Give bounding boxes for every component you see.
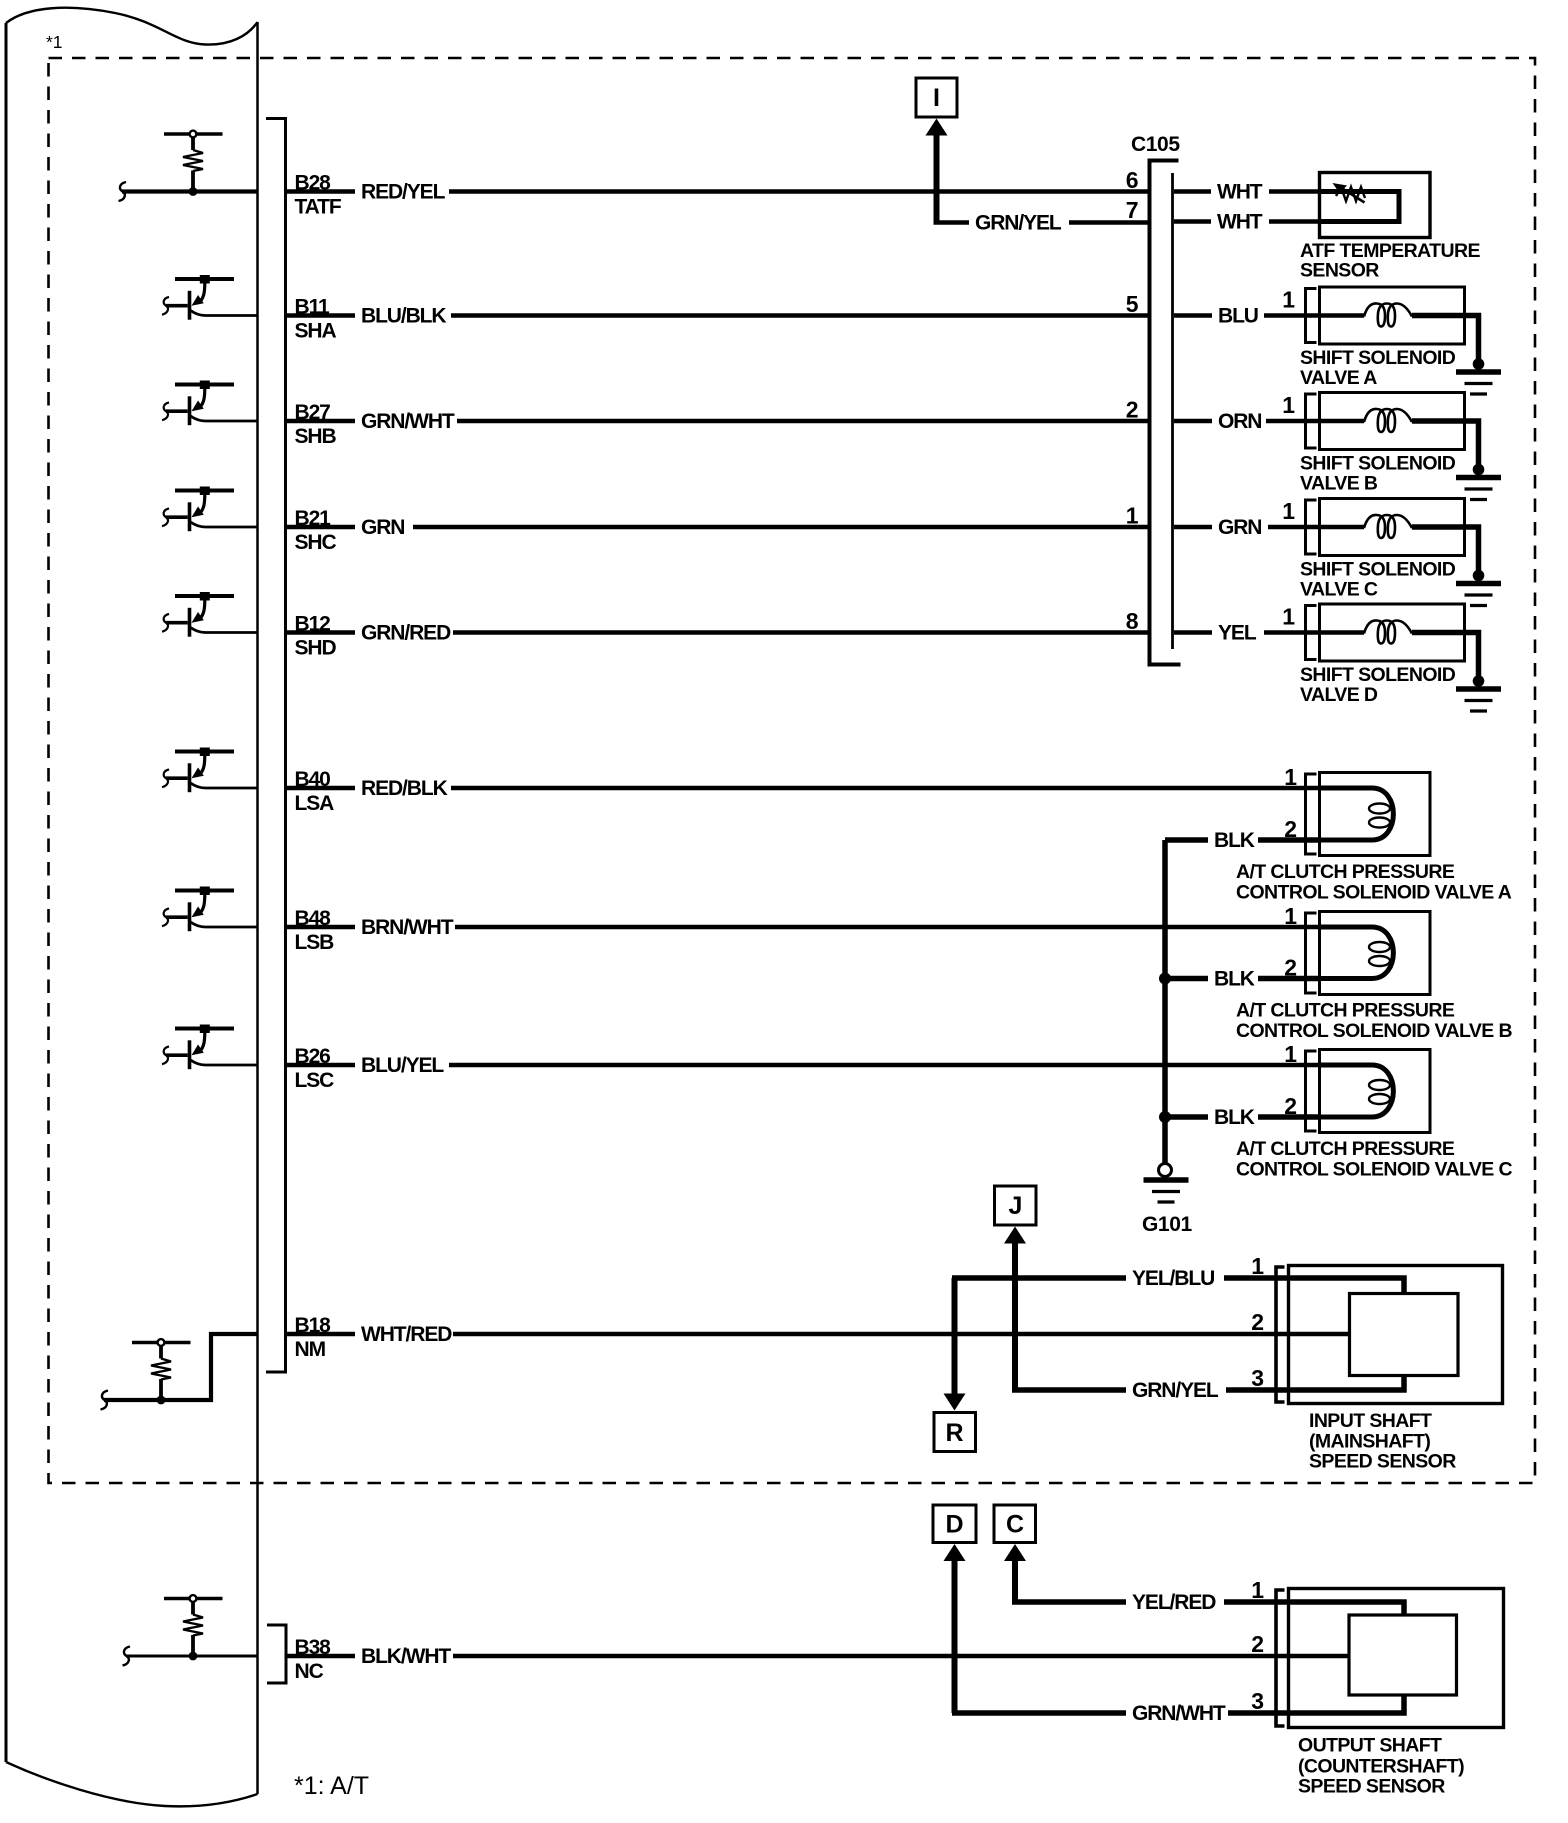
svg-text:R: R — [946, 1419, 964, 1447]
connector box C — [994, 1505, 1036, 1543]
svg-text:SHB: SHB — [295, 425, 337, 448]
wire WHT (pin7 device side) — [1174, 209, 1320, 234]
svg-text:CONTROL SOLENOID VALVE B: CONTROL SOLENOID VALVE B — [1236, 1020, 1512, 1042]
wire GRN/YEL vertical to J — [1012, 1240, 1018, 1390]
wire GRN (pin1 device side) — [1174, 515, 1364, 540]
connector box D — [933, 1505, 976, 1543]
svg-text:*1: *1 — [46, 32, 63, 52]
dashed A/T boundary box — [49, 58, 1536, 1483]
ground (valve B) — [1456, 478, 1501, 500]
svg-text:CONTROL SOLENOID VALVE C: CONTROL SOLENOID VALVE C — [1236, 1159, 1512, 1181]
svg-text:BLU/YEL: BLU/YEL — [361, 1054, 444, 1077]
transistor Q2 (B27 row) — [162, 381, 259, 426]
svg-text:SHIFT SOLENOID: SHIFT SOLENOID — [1300, 559, 1456, 581]
ground dot (valve A) — [1473, 358, 1485, 370]
svg-text:1: 1 — [1251, 1577, 1264, 1603]
junction dot (bus at clutch C) — [1159, 1111, 1171, 1123]
svg-text:SHIFT SOLENOID: SHIFT SOLENOID — [1300, 453, 1456, 475]
ground dot (valve D) — [1473, 675, 1485, 687]
wire GRN/YEL horizontal to C105 pin7 — [934, 210, 1148, 235]
svg-text:A/T CLUTCH PRESSURE: A/T CLUTCH PRESSURE — [1236, 861, 1455, 883]
svg-text:GRN: GRN — [1218, 516, 1261, 539]
wire B11 BLU/BLK to C105 pin5 — [286, 303, 1148, 328]
wire YEL (pin8 device side) — [1174, 620, 1364, 645]
label OUTPUT SHAFT (COUNTERSHAFT) SPEED SENSOR — [1298, 1735, 1464, 1798]
output sensor outer box — [1289, 1589, 1504, 1728]
svg-text:BLU: BLU — [1218, 305, 1258, 328]
svg-text:GRN/WHT: GRN/WHT — [1132, 1702, 1226, 1725]
svg-text:SHC: SHC — [295, 531, 337, 554]
arrow to D — [944, 1544, 966, 1561]
ATF sensor internal loop wire — [1320, 192, 1399, 222]
pin B21 / SHC — [295, 507, 337, 554]
svg-text:YEL/RED: YEL/RED — [1132, 1591, 1216, 1614]
connector bracket (input sensor) — [1276, 1267, 1285, 1402]
wire GRN/YEL vertical to I — [934, 132, 940, 223]
svg-text:3: 3 — [1251, 1365, 1264, 1391]
svg-text:(COUNTERSHAFT): (COUNTERSHAFT) — [1298, 1756, 1464, 1778]
label A/T CLUTCH PRESSURE CONTROL SOLENOID VALVE C — [1236, 1138, 1512, 1181]
svg-text:I: I — [933, 84, 940, 112]
connector bracket (clutch A) — [1306, 774, 1317, 854]
svg-text:TATF: TATF — [295, 196, 342, 219]
pin B26 / LSC — [295, 1045, 335, 1092]
svg-text:BLK: BLK — [1214, 829, 1255, 852]
svg-text:7: 7 — [1126, 197, 1139, 223]
svg-text:1: 1 — [1284, 1041, 1297, 1067]
wire B27 GRN/WHT to C105 pin2 — [286, 409, 1148, 434]
wire GRN/WHT vertical to D — [952, 1558, 958, 1714]
svg-text:YEL/BLU: YEL/BLU — [1132, 1267, 1214, 1290]
connector box J — [995, 1186, 1037, 1225]
svg-text:8: 8 — [1126, 608, 1139, 634]
squiggle (B38 internal line end) — [123, 1647, 131, 1666]
svg-text:GRN/WHT: GRN/WHT — [361, 410, 455, 433]
svg-text:CONTROL SOLENOID VALVE A: CONTROL SOLENOID VALVE A — [1236, 882, 1512, 904]
connector bracket (output sensor) — [1276, 1590, 1285, 1726]
svg-text:GRN/YEL: GRN/YEL — [1132, 1379, 1219, 1402]
svg-text:C105: C105 — [1131, 133, 1180, 156]
svg-text:1: 1 — [1282, 287, 1295, 313]
svg-text:WHT/RED: WHT/RED — [361, 1323, 452, 1346]
pull-up resistor circuit (B28 row) — [164, 131, 223, 196]
svg-text:1: 1 — [1284, 764, 1297, 790]
svg-text:SPEED SENSOR: SPEED SENSOR — [1309, 1451, 1456, 1473]
svg-text:ORN: ORN — [1218, 410, 1261, 433]
label ATF TEMPERATURE SENSOR — [1300, 240, 1480, 282]
svg-text:A/T CLUTCH PRESSURE: A/T CLUTCH PRESSURE — [1236, 1000, 1455, 1022]
svg-text:J: J — [1009, 1192, 1023, 1220]
junction dot (bus at clutch B) — [1159, 973, 1171, 985]
svg-text:NC: NC — [295, 1660, 324, 1683]
pin B12 / SHD — [295, 613, 337, 660]
wire B38 BLK/WHT to output speed sensor pin2 — [286, 1644, 1350, 1669]
coil loops (clutch A) — [1369, 804, 1390, 814]
ground G101 — [1144, 1180, 1189, 1202]
svg-text:GRN/YEL: GRN/YEL — [975, 212, 1062, 235]
wire coil to ground (valve D) — [1412, 633, 1479, 682]
wire B28 RED/YEL to C105 pin6 — [286, 179, 1148, 204]
wire coil to ground (valve C) — [1412, 527, 1479, 576]
svg-text:BLK/WHT: BLK/WHT — [361, 1645, 451, 1668]
clutch valve A box — [1320, 773, 1431, 856]
label INPUT SHAFT (MAINSHAFT) SPEED SENSOR — [1309, 1410, 1456, 1473]
wire BLK (clutch C pin2) — [1165, 1105, 1320, 1130]
svg-text:RED/YEL: RED/YEL — [361, 181, 446, 204]
svg-text:SPEED SENSOR: SPEED SENSOR — [1298, 1776, 1445, 1798]
coil (valve C) — [1364, 515, 1412, 538]
coil (valve A) — [1364, 303, 1412, 326]
wire YEL/RED (output pin1) — [1012, 1590, 1290, 1615]
torn page bottom wavy edge — [6, 1762, 258, 1806]
svg-text:C: C — [1006, 1511, 1024, 1539]
svg-text:INPUT SHAFT: INPUT SHAFT — [1309, 1410, 1432, 1432]
svg-text:6: 6 — [1126, 167, 1139, 193]
label SHIFT SOLENOID VALVE A — [1300, 347, 1456, 389]
svg-text:SHD: SHD — [295, 637, 337, 660]
svg-text:OUTPUT SHAFT: OUTPUT SHAFT — [1298, 1735, 1442, 1757]
connector box R — [934, 1413, 976, 1452]
svg-text:1: 1 — [1282, 498, 1295, 524]
transistor Q4 (B12 row) — [162, 592, 259, 637]
input sensor internal wire — [1290, 1278, 1404, 1390]
svg-text:WHT: WHT — [1217, 211, 1263, 234]
shift solenoid valve B box — [1320, 393, 1465, 450]
connector bracket (valve C) — [1306, 500, 1317, 554]
svg-text:RED/BLK: RED/BLK — [361, 777, 448, 800]
output sensor element square — [1349, 1615, 1457, 1695]
coil arc (clutch A) — [1320, 788, 1393, 840]
svg-text:BLU/BLK: BLU/BLK — [361, 305, 446, 328]
wire BLU (pin5 device side) — [1174, 303, 1364, 328]
svg-text:1: 1 — [1251, 1253, 1264, 1279]
thermistor element — [1333, 183, 1366, 203]
svg-text:BLK: BLK — [1214, 1106, 1255, 1129]
arrow to C — [1004, 1544, 1026, 1561]
svg-text:1: 1 — [1282, 392, 1295, 418]
svg-text:BLK: BLK — [1214, 968, 1255, 991]
svg-text:VALVE D: VALVE D — [1300, 684, 1378, 706]
shift solenoid valve C box — [1320, 499, 1465, 556]
pin B18 / NM — [295, 1314, 332, 1361]
ground (valve D) — [1456, 689, 1501, 711]
svg-text:3: 3 — [1251, 1688, 1264, 1714]
wire (B38 internal) — [126, 1655, 258, 1658]
wire B48 BRN/WHT to clutch valve B pin1 — [286, 915, 1373, 940]
clutch valve C box — [1320, 1050, 1431, 1133]
arrow to I — [926, 119, 948, 136]
ECU connector bracket (B28..B18) — [266, 119, 286, 1373]
wire B18 WHT/RED to input speed sensor pin2 — [286, 1322, 1350, 1347]
pull-up resistor circuit (B38 row) — [164, 1595, 223, 1660]
svg-text:1: 1 — [1126, 503, 1139, 529]
connector bracket (valve A) — [1306, 289, 1317, 343]
transistor Q5 (B40 row) — [162, 748, 259, 793]
svg-text:LSA: LSA — [295, 792, 335, 815]
label SHIFT SOLENOID VALVE C — [1300, 559, 1456, 601]
connector bracket (clutch B) — [1306, 913, 1317, 993]
torn page left border — [5, 23, 8, 1762]
svg-text:2: 2 — [1126, 397, 1139, 423]
svg-text:D: D — [946, 1511, 964, 1539]
svg-text:1: 1 — [1284, 903, 1297, 929]
svg-text:LSB: LSB — [295, 931, 335, 954]
transistor Q1 (B11 row) — [162, 275, 259, 320]
wire YEL/RED vertical to C — [1012, 1558, 1018, 1603]
input sensor element square — [1350, 1294, 1459, 1376]
svg-text:GRN: GRN — [361, 516, 404, 539]
svg-text:SHIFT SOLENOID: SHIFT SOLENOID — [1300, 664, 1456, 686]
clutch valve B box — [1320, 912, 1431, 995]
pull-up resistor circuit (B18 row) — [132, 1339, 191, 1404]
pin B48 / LSB — [295, 907, 335, 954]
connector box I — [916, 78, 957, 117]
svg-text:SENSOR: SENSOR — [1300, 260, 1379, 282]
svg-text:1: 1 — [1282, 604, 1295, 630]
torn page top wavy edge — [6, 8, 258, 45]
pin B40 / LSA — [295, 768, 335, 815]
transistor Q3 (B21 row) — [162, 487, 259, 532]
svg-text:SHIFT SOLENOID: SHIFT SOLENOID — [1300, 347, 1456, 369]
squiggle (B18 internal line end) — [101, 1391, 109, 1410]
shift solenoid valve D box — [1320, 604, 1465, 661]
svg-text:2: 2 — [1251, 1309, 1264, 1335]
wire BLK (clutch B pin2) — [1165, 966, 1320, 991]
ground dot (valve C) — [1473, 570, 1485, 582]
pin B27 / SHB — [295, 401, 337, 448]
svg-text:G101: G101 — [1142, 1213, 1192, 1236]
svg-text:(MAINSHAFT): (MAINSHAFT) — [1309, 1431, 1430, 1453]
connector bracket (valve B) — [1306, 394, 1317, 448]
ECU connector bracket for B38 — [267, 1625, 286, 1683]
connector C105 male side — [1171, 173, 1174, 649]
wire coil to ground (valve B) — [1412, 421, 1479, 470]
svg-text:A/T CLUTCH PRESSURE: A/T CLUTCH PRESSURE — [1236, 1138, 1455, 1160]
wire B12 GRN/RED to C105 pin8 — [286, 620, 1148, 645]
ground (valve C) — [1456, 584, 1501, 606]
svg-text:VALVE B: VALVE B — [1300, 473, 1378, 495]
connector bracket (clutch C) — [1306, 1051, 1317, 1131]
wire (B18 internal stepped) — [104, 1334, 258, 1400]
svg-text:NM: NM — [295, 1338, 326, 1361]
ATF temperature sensor box — [1320, 173, 1431, 238]
wire B26 BLU/YEL to clutch valve C pin1 — [286, 1053, 1373, 1078]
coil (valve D) — [1364, 620, 1412, 643]
connector C105 female side — [1148, 159, 1181, 667]
wire B40 RED/BLK to clutch valve A pin1 — [286, 776, 1373, 801]
pin B11 / SHA — [295, 296, 337, 343]
svg-text:SHA: SHA — [295, 320, 337, 343]
wire YEL/BLU vertical to R — [952, 1278, 958, 1395]
wire BLK (clutch A pin2) — [1165, 828, 1320, 853]
shift solenoid valve A box — [1320, 287, 1465, 344]
pin B28 / TATF — [295, 172, 342, 219]
transistor Q6 (B48 row) — [162, 887, 259, 932]
svg-text:VALVE C: VALVE C — [1300, 579, 1378, 601]
label SHIFT SOLENOID VALVE B — [1300, 453, 1456, 495]
coil arc (clutch B) — [1320, 927, 1393, 979]
coil loops (clutch B) — [1369, 942, 1390, 952]
label A/T CLUTCH PRESSURE CONTROL SOLENOID VALVE B — [1236, 1000, 1512, 1043]
svg-text:2: 2 — [1251, 1631, 1264, 1657]
coil arc (clutch C) — [1320, 1065, 1393, 1117]
wire ORN (pin2 device side) — [1174, 409, 1364, 434]
ground dot (valve B) — [1473, 464, 1485, 476]
svg-text:*1: A/T: *1: A/T — [294, 1772, 369, 1800]
label SHIFT SOLENOID VALVE D — [1300, 664, 1456, 706]
svg-text:VALVE A: VALVE A — [1300, 367, 1377, 389]
wire GRN/WHT (output pin3) — [952, 1701, 1290, 1726]
wire (B28 internal) — [122, 189, 258, 193]
svg-text:BRN/WHT: BRN/WHT — [361, 916, 454, 939]
svg-text:5: 5 — [1126, 291, 1139, 317]
label A/T CLUTCH PRESSURE CONTROL SOLENOID VALVE A — [1236, 861, 1512, 904]
wire GRN/YEL (input pin3) — [1012, 1378, 1290, 1403]
output sensor internal wire — [1290, 1602, 1404, 1713]
svg-text:GRN/RED: GRN/RED — [361, 622, 451, 645]
transistor Q7 (B26 row) — [162, 1025, 259, 1070]
svg-text:WHT: WHT — [1217, 181, 1263, 204]
arrow to R — [944, 1394, 966, 1411]
arrow to J — [1004, 1227, 1026, 1244]
torn page right edge (ECU boundary) — [256, 22, 259, 1794]
svg-text:YEL: YEL — [1218, 622, 1257, 645]
ground (valve A) — [1456, 372, 1501, 394]
connector bracket (valve D) — [1306, 606, 1317, 660]
wire B21 GRN to C105 pin1 — [286, 515, 1148, 540]
pin B38 / NC — [295, 1636, 332, 1683]
wire BLK bus vertical — [1162, 840, 1168, 1163]
svg-text:LSC: LSC — [295, 1069, 335, 1092]
input sensor outer box — [1289, 1266, 1503, 1404]
wire YEL/BLU (input pin1) — [952, 1266, 1290, 1291]
coil (valve B) — [1364, 409, 1412, 432]
wire coil to ground (valve A) — [1412, 316, 1479, 365]
coil loops (clutch C) — [1369, 1080, 1390, 1090]
G101 terminal circle — [1159, 1164, 1172, 1177]
squiggle (B28 internal line end) — [119, 182, 127, 201]
wire WHT (pin6 device side) — [1174, 179, 1320, 204]
